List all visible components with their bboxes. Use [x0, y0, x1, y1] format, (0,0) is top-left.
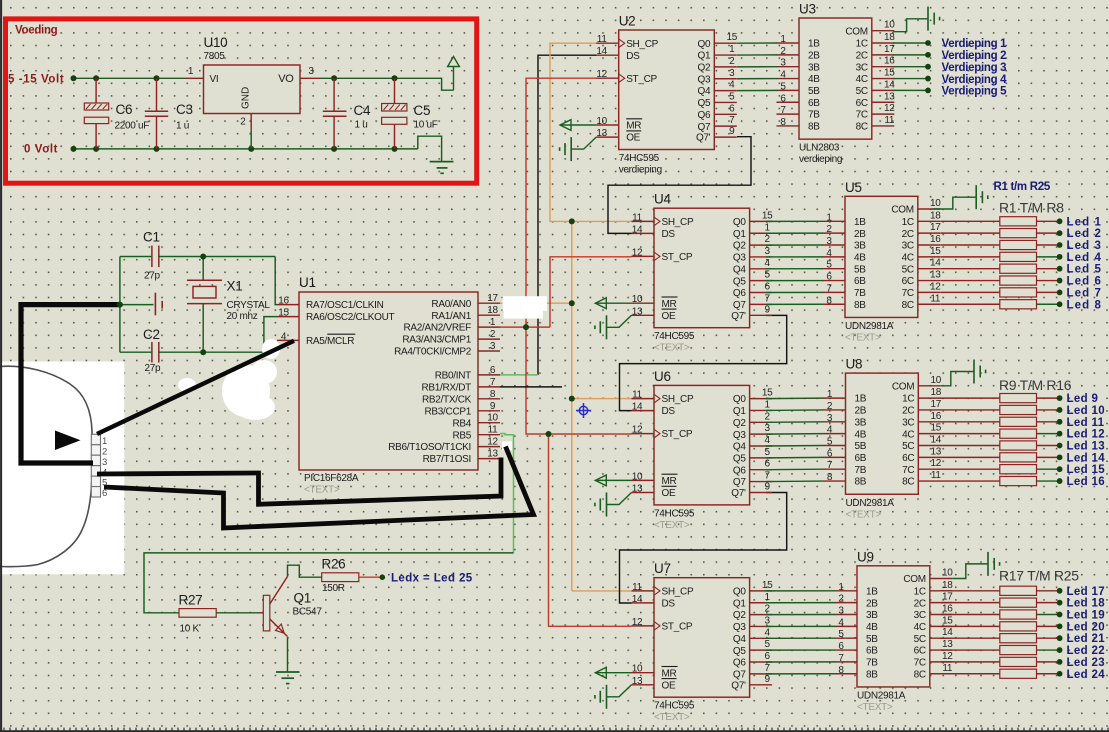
resistor R16	[941, 476, 1037, 485]
svg-text:<TEXT>: <TEXT>	[654, 712, 690, 723]
svg-text:1: 1	[826, 212, 832, 223]
svg-text:12: 12	[930, 281, 941, 292]
resistor R18	[941, 598, 1037, 607]
wire oscillator bottom rail	[120, 304, 264, 353]
wire to Led 14	[1037, 456, 1058, 458]
svg-text:Verdieping 5: Verdieping 5	[942, 86, 1008, 98]
capacitor C3 (1 u)	[145, 78, 193, 149]
svg-text:U10: U10	[204, 35, 228, 50]
resistor R27 (10 K)	[179, 593, 217, 635]
svg-text:15: 15	[727, 32, 738, 43]
wire ST_CP to U7 (red)	[549, 434, 632, 626]
svg-text:7: 7	[729, 115, 735, 126]
svg-text:4: 4	[838, 617, 844, 628]
node Verdieping 3	[925, 64, 931, 70]
svg-text:<TEXT>: <TEXT>	[654, 520, 690, 531]
svg-text:R26: R26	[322, 557, 346, 572]
svg-text:8B: 8B	[855, 477, 867, 488]
svg-text:18: 18	[884, 32, 895, 43]
wire to Led 3	[1037, 244, 1058, 246]
resistor R26 (150R)	[322, 557, 359, 595]
node Led 19	[1057, 612, 1063, 618]
svg-text:RB0/INT: RB0/INT	[435, 371, 471, 382]
svg-text:3: 3	[102, 457, 107, 468]
svg-text:17: 17	[931, 399, 942, 410]
svg-text:RA1/AN1: RA1/AN1	[431, 311, 471, 322]
node X1 bottom	[200, 349, 206, 355]
svg-text:7: 7	[490, 377, 496, 388]
svg-text:4C: 4C	[902, 429, 914, 440]
svg-text:R27: R27	[179, 593, 203, 608]
svg-text:4: 4	[826, 248, 832, 259]
svg-text:15: 15	[762, 580, 773, 591]
wire RB5 net to R27 (dark green)	[144, 553, 514, 613]
wire U2 Q7 to U4 DS (black)	[608, 137, 751, 234]
svg-text:3B: 3B	[854, 241, 866, 252]
svg-text:ST_CP: ST_CP	[662, 622, 693, 633]
svg-text:10: 10	[487, 413, 498, 424]
svg-text:U6: U6	[654, 369, 671, 384]
svg-text:Q1: Q1	[733, 229, 746, 240]
svg-text:1: 1	[764, 222, 770, 233]
resistor R23	[941, 657, 1037, 666]
svg-text:150R: 150R	[322, 583, 345, 594]
svg-text:9: 9	[490, 401, 496, 412]
node Verdieping 2	[925, 52, 931, 58]
connector pin strip	[91, 434, 107, 499]
node ST_CP tap	[523, 324, 529, 330]
svg-text:RB2/TX/CK: RB2/TX/CK	[422, 394, 472, 405]
node C6 tap	[93, 75, 99, 81]
svg-text:13: 13	[942, 639, 953, 650]
svg-text:6: 6	[102, 488, 107, 499]
node Led 16	[1057, 478, 1063, 484]
wire to Led 15	[1037, 468, 1058, 470]
svg-text:2: 2	[764, 604, 770, 615]
svg-text:Q5: Q5	[698, 98, 711, 109]
svg-text:6B: 6B	[808, 98, 820, 109]
sheet border left	[0, 0, 2, 732]
svg-text:Q4: Q4	[733, 442, 746, 453]
svg-text:2: 2	[827, 401, 833, 412]
svg-text:1: 1	[827, 389, 833, 400]
capacitor C2 (27p)	[143, 327, 161, 374]
power symbol U9 COM	[952, 552, 999, 579]
svg-text:12: 12	[596, 69, 607, 80]
svg-text:5B: 5B	[855, 441, 867, 452]
svg-text:74HC595: 74HC595	[654, 701, 695, 712]
svg-text:13: 13	[632, 676, 643, 687]
white-out patch over U1 pin 12	[502, 442, 512, 451]
white-out blob left of U1	[178, 339, 280, 420]
svg-text:5B: 5B	[866, 634, 878, 645]
microcontroller U1 PIC16F628A body	[299, 275, 478, 496]
svg-text:1C: 1C	[914, 586, 926, 597]
svg-text:Q0: Q0	[733, 217, 746, 228]
svg-text:13: 13	[930, 270, 941, 281]
svg-text:6B: 6B	[855, 453, 867, 464]
resistor R4	[941, 252, 1037, 261]
svg-text:Q5: Q5	[733, 646, 746, 657]
wire SH_CP to U6 (orange)	[572, 398, 632, 400]
ground symbol Q1 emitter	[276, 672, 300, 684]
wire to Led 8	[1037, 303, 1058, 305]
svg-text:7: 7	[780, 105, 786, 116]
svg-text:3C: 3C	[902, 417, 914, 428]
svg-text:5: 5	[780, 81, 786, 92]
wire U10 GND to 0V rail	[250, 130, 252, 149]
svg-text:16: 16	[884, 56, 895, 67]
svg-text:2: 2	[764, 234, 770, 245]
svg-text:5C: 5C	[856, 86, 868, 97]
svg-text:Verdieping 1: Verdieping 1	[942, 38, 1008, 50]
svg-text:5: 5	[729, 91, 735, 102]
svg-text:Led 8: Led 8	[1067, 299, 1103, 311]
svg-text:Led 10: Led 10	[1067, 405, 1106, 417]
svg-text:0 Volt: 0 Volt	[24, 144, 58, 156]
svg-text:5: 5	[827, 437, 833, 448]
svg-text:R1 t/m R25: R1 t/m R25	[994, 181, 1051, 193]
svg-text:verdieping: verdieping	[619, 165, 662, 176]
svg-text:SH_CP: SH_CP	[662, 587, 694, 598]
svg-text:1C: 1C	[902, 217, 914, 228]
svg-text:6B: 6B	[854, 276, 866, 287]
svg-text:4: 4	[764, 435, 770, 446]
svg-text:5B: 5B	[854, 264, 866, 275]
U4 pin stubs and numbers	[632, 210, 774, 317]
svg-text:MR: MR	[662, 299, 677, 310]
svg-text:6: 6	[826, 272, 832, 283]
wire to Led 24	[1037, 673, 1058, 675]
svg-text:Led 22: Led 22	[1067, 645, 1106, 657]
svg-text:Led 13: Led 13	[1067, 441, 1106, 453]
svg-text:Q0: Q0	[733, 394, 746, 405]
svg-text:5: 5	[764, 270, 770, 281]
svg-text:MR: MR	[626, 121, 641, 132]
svg-text:RB7/T1OSI: RB7/T1OSI	[423, 454, 471, 465]
svg-text:13: 13	[632, 306, 643, 317]
svg-text:3: 3	[308, 66, 314, 77]
wire to Led 22	[1037, 649, 1058, 651]
svg-text:5C: 5C	[902, 441, 914, 452]
wire RB5 to led driver net (bright green)	[500, 434, 514, 553]
resistor R8	[941, 300, 1037, 309]
series capacitor at MCLR node	[120, 293, 162, 316]
svg-text:C5: C5	[414, 103, 431, 118]
svg-text:Q6: Q6	[733, 288, 746, 299]
svg-text:Led 15: Led 15	[1067, 464, 1106, 476]
wire +V input rail	[74, 77, 186, 79]
svg-text:Q6: Q6	[698, 110, 711, 121]
svg-text:7: 7	[764, 471, 770, 482]
resistor R2	[941, 229, 1037, 238]
svg-text:Q4: Q4	[733, 634, 746, 645]
UDN2981A U5 body	[845, 180, 918, 344]
svg-text:OE: OE	[662, 488, 676, 499]
svg-text:1: 1	[188, 66, 194, 77]
svg-text:8C: 8C	[902, 477, 914, 488]
svg-text:<TEXT>: <TEXT>	[857, 702, 893, 713]
svg-text:RA5/MCLR: RA5/MCLR	[306, 336, 354, 347]
svg-text:RB5: RB5	[452, 430, 471, 441]
svg-text:7B: 7B	[855, 465, 867, 476]
svg-text:R9 T/M R16: R9 T/M R16	[999, 377, 1072, 393]
U6 MR reset arrow symbol	[595, 475, 631, 486]
svg-text:Led 24: Led 24	[1067, 669, 1106, 681]
resistor R6	[941, 276, 1037, 285]
crystal X1 20 mhz	[187, 279, 270, 323]
svg-text:15: 15	[931, 423, 942, 434]
resistor R7	[941, 288, 1037, 297]
resistor R15	[941, 465, 1037, 474]
svg-text:10: 10	[632, 294, 643, 305]
wires U4 outputs to U5 inputs	[766, 221, 823, 304]
resistor R20	[941, 622, 1037, 631]
Voeding red border box	[6, 19, 477, 183]
svg-text:ULN2803: ULN2803	[799, 143, 840, 154]
svg-text:9: 9	[729, 126, 735, 137]
svg-text:14: 14	[632, 402, 643, 413]
svg-text:1 u: 1 u	[355, 120, 368, 131]
svg-text:6: 6	[764, 651, 770, 662]
resistor R12	[941, 429, 1037, 438]
svg-text:Q7: Q7	[733, 477, 746, 488]
U7 pin stubs and numbers	[632, 580, 774, 687]
svg-text:SH_CP: SH_CP	[662, 394, 694, 405]
svg-text:16: 16	[931, 411, 942, 422]
node Led 4	[1057, 254, 1063, 260]
svg-text:5: 5	[826, 260, 832, 271]
wire to Led 7	[1037, 291, 1058, 293]
svg-text:2: 2	[102, 446, 107, 457]
node Verdieping 1	[925, 40, 931, 46]
svg-text:12: 12	[487, 437, 498, 448]
wire to Led 9	[1037, 397, 1058, 399]
wire U6 Q7 to U7 DS (black)	[620, 493, 787, 604]
U1 pin stubs and numbers	[277, 293, 500, 459]
node Verdieping 5	[925, 88, 931, 94]
wire oscillator left rail	[119, 257, 121, 353]
svg-text:13: 13	[884, 91, 895, 102]
svg-text:6C: 6C	[914, 646, 926, 657]
wire +5V output rail	[320, 78, 454, 90]
wire to Led 10	[1037, 409, 1058, 411]
svg-text:7: 7	[764, 663, 770, 674]
svg-text:18: 18	[930, 210, 941, 221]
pasted photo background	[0, 362, 124, 575]
node Ledx	[380, 574, 386, 580]
thick cable line connector pin 5 to RB6	[104, 447, 534, 529]
resistor R24	[941, 669, 1037, 678]
svg-text:Q7': Q7'	[696, 133, 711, 144]
origin marker (blue crosshair)	[576, 403, 591, 418]
svg-text:8C: 8C	[902, 300, 914, 311]
svg-text:3: 3	[764, 423, 770, 434]
resistor R19	[941, 610, 1037, 619]
svg-text:7C: 7C	[902, 288, 914, 299]
svg-text:6C: 6C	[902, 453, 914, 464]
node Led 23	[1057, 659, 1063, 665]
svg-text:15: 15	[884, 68, 895, 79]
wire to Led 11	[1037, 421, 1058, 423]
node MCLR cap	[117, 302, 123, 308]
svg-text:verdieping: verdieping	[799, 154, 842, 165]
svg-text:COM: COM	[892, 381, 914, 392]
node Led 12	[1057, 431, 1063, 437]
svg-text:4: 4	[764, 627, 770, 638]
wire 0V bottom rail	[74, 148, 418, 150]
wire RB1/RX/DT stub (black)	[500, 386, 562, 388]
svg-text:ST_CP: ST_CP	[662, 429, 693, 440]
node Led 9	[1057, 395, 1063, 401]
svg-text:10: 10	[942, 568, 953, 579]
svg-text:2C: 2C	[902, 406, 914, 417]
svg-text:Q0: Q0	[698, 39, 711, 50]
svg-text:14: 14	[931, 435, 942, 446]
svg-text:4B: 4B	[866, 622, 878, 633]
wire oscillator top rail	[120, 257, 275, 281]
svg-text:6C: 6C	[856, 98, 868, 109]
node C5 bottom	[392, 146, 398, 152]
svg-text:2: 2	[729, 56, 735, 67]
svg-text:R1 T/M R8: R1 T/M R8	[999, 200, 1064, 216]
power symbol U5 COM	[933, 185, 988, 209]
svg-text:1: 1	[490, 317, 496, 328]
svg-text:Ledx = Led 25: Ledx = Led 25	[391, 573, 473, 585]
svg-text:Led 18: Led 18	[1067, 598, 1106, 610]
svg-text:Led 12: Led 12	[1067, 429, 1106, 441]
svg-text:74HC595: 74HC595	[654, 508, 695, 519]
svg-text:18: 18	[487, 305, 498, 316]
svg-text:BC547: BC547	[293, 607, 323, 618]
svg-text:7805: 7805	[204, 51, 226, 62]
svg-text:2: 2	[826, 224, 832, 235]
resistor R9	[941, 394, 1037, 403]
capacitor C1 (27p)	[143, 230, 161, 282]
node 0V start	[71, 146, 77, 152]
svg-text:3: 3	[838, 606, 844, 617]
U6 pin stubs and numbers	[632, 388, 774, 495]
svg-text:<TEXT>: <TEXT>	[304, 485, 340, 496]
svg-text:14: 14	[942, 627, 953, 638]
svg-text:UDN2981A: UDN2981A	[857, 690, 906, 701]
svg-text:R17 T/M R25: R17 T/M R25	[999, 568, 1079, 584]
node C3 tap	[154, 75, 160, 81]
svg-text:9: 9	[764, 482, 770, 493]
wire Q1 collector to R26	[288, 565, 322, 577]
svg-text:Led 4: Led 4	[1067, 252, 1103, 264]
svg-text:13: 13	[632, 484, 643, 495]
svg-text:CRYSTAL: CRYSTAL	[227, 300, 271, 311]
wire 0V rail to ground	[418, 136, 442, 161]
svg-text:2B: 2B	[808, 50, 820, 61]
svg-text:Led 19: Led 19	[1067, 610, 1106, 622]
wire to Led 21	[1037, 637, 1058, 639]
svg-text:17: 17	[487, 293, 498, 304]
svg-text:Q5: Q5	[733, 453, 746, 464]
wire to Led 5	[1037, 268, 1058, 270]
svg-text:5: 5	[764, 639, 770, 650]
svg-text:11: 11	[930, 293, 941, 304]
U6 OE ground symbol	[595, 493, 632, 517]
svg-text:8: 8	[827, 472, 833, 483]
svg-text:DS: DS	[662, 599, 676, 610]
wire to Led 18	[1037, 602, 1058, 604]
thick cable line to connector pin 3	[21, 305, 121, 463]
svg-text:4: 4	[729, 80, 735, 91]
svg-text:6: 6	[729, 103, 735, 114]
wires U2 outputs to U3 inputs	[737, 43, 777, 91]
svg-text:16: 16	[942, 604, 953, 615]
svg-text:13: 13	[931, 446, 942, 457]
svg-text:COM: COM	[903, 574, 925, 585]
svg-text:2: 2	[780, 46, 786, 57]
svg-text:6B: 6B	[866, 646, 878, 657]
svg-text:10: 10	[931, 375, 942, 386]
resistor R11	[941, 417, 1037, 426]
U4 OE ground symbol	[595, 315, 632, 339]
svg-text:4C: 4C	[914, 622, 926, 633]
svg-text:6: 6	[838, 641, 844, 652]
svg-text:10: 10	[884, 20, 895, 31]
svg-text:2: 2	[240, 117, 246, 128]
node Led 15	[1057, 466, 1063, 472]
svg-text:DS: DS	[662, 406, 676, 417]
node Led 11	[1057, 419, 1063, 425]
svg-text:COM: COM	[891, 205, 913, 216]
svg-text:Verdieping 2: Verdieping 2	[942, 50, 1007, 62]
wire RB0/INT to DS bus (bright green)	[500, 374, 538, 376]
svg-text:1: 1	[102, 436, 107, 447]
resistor R14	[941, 453, 1037, 462]
svg-text:8: 8	[826, 295, 832, 306]
wire OSC1 to U1 pin 16	[275, 257, 277, 305]
svg-text:2B: 2B	[854, 229, 866, 240]
node C3 bottom	[154, 146, 160, 152]
svg-text:Led 11: Led 11	[1067, 417, 1105, 429]
svg-text:RA2/AN2/VREF: RA2/AN2/VREF	[403, 323, 471, 334]
svg-text:Led 21: Led 21	[1067, 633, 1106, 645]
svg-text:Led 2: Led 2	[1067, 228, 1103, 240]
svg-text:UDN2981A: UDN2981A	[845, 321, 894, 332]
svg-text:<TEXT>: <TEXT>	[846, 509, 882, 520]
svg-text:RA0/AN0: RA0/AN0	[431, 299, 471, 310]
svg-text:27p: 27p	[144, 271, 161, 282]
wire to Led 13	[1037, 445, 1058, 447]
svg-text:7: 7	[838, 653, 844, 664]
resistor R17	[941, 586, 1037, 595]
svg-text:Led 20: Led 20	[1067, 621, 1106, 633]
svg-text:RA6/OSC2/CLKOUT: RA6/OSC2/CLKOUT	[306, 312, 394, 323]
U2 pin stubs and numbers	[596, 32, 738, 139]
svg-text:U7: U7	[654, 561, 671, 576]
svg-text:1B: 1B	[854, 217, 866, 228]
node C6 bottom	[93, 146, 99, 152]
svg-text:RA4/T0CKI/CMP2: RA4/T0CKI/CMP2	[394, 347, 472, 358]
svg-text:12: 12	[632, 425, 643, 436]
svg-text:4B: 4B	[855, 429, 867, 440]
svg-text:3: 3	[764, 615, 770, 626]
resistor R13	[941, 441, 1037, 450]
svg-text:6C: 6C	[902, 276, 914, 287]
svg-text:8: 8	[838, 665, 844, 676]
svg-text:Q7': Q7'	[731, 311, 746, 322]
svg-text:17: 17	[884, 44, 895, 55]
svg-text:11: 11	[488, 425, 499, 436]
svg-text:X1: X1	[227, 279, 243, 294]
arrow marker in photo	[55, 431, 81, 451]
svg-text:Q3: Q3	[733, 430, 746, 441]
